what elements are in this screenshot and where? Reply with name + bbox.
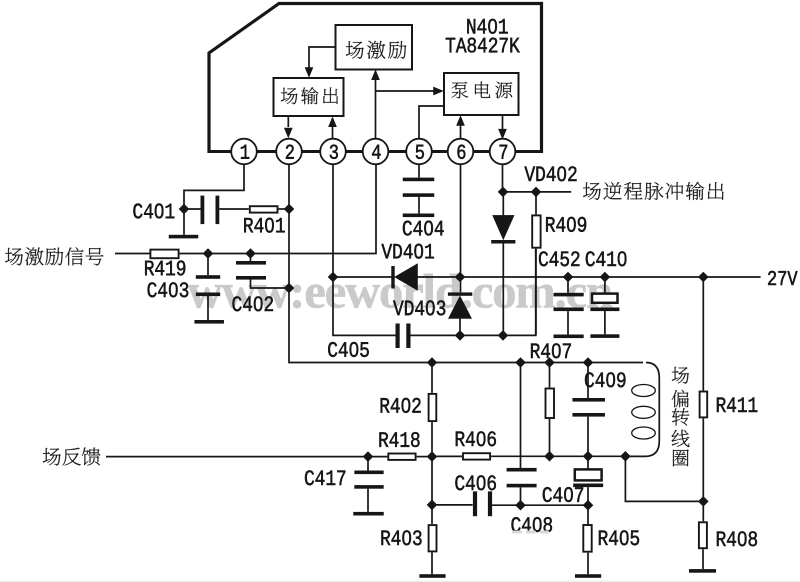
ground R408 bbox=[689, 569, 716, 573]
capacitor C405 bbox=[396, 324, 400, 349]
capacitor C408 bbox=[432, 504, 473, 506]
label C452 bbox=[539, 251, 548, 266]
label C410 bbox=[586, 251, 595, 266]
resistor R402 bbox=[431, 363, 433, 393]
wire pin4 to 场激励 arrow up bbox=[375, 80, 377, 139]
wire retrace output bbox=[503, 191, 571, 193]
node C402 junction bbox=[245, 248, 256, 259]
watermark www.eeworld.com.cn bbox=[188, 285, 223, 308]
resistor R407 bbox=[549, 363, 551, 388]
diode VD401 bbox=[391, 266, 394, 289]
ground C410 bbox=[590, 334, 619, 338]
diode VD402 bbox=[502, 192, 504, 216]
label 场逆程脉冲输出 bbox=[583, 182, 601, 199]
capacitor C410 (electrolytic) bbox=[604, 277, 606, 293]
capacitor C402 bbox=[250, 254, 252, 262]
wire pin1 to C401 bbox=[184, 164, 244, 209]
wire C405 to R409 riser bbox=[411, 249, 536, 336]
ground C403 bbox=[194, 320, 224, 324]
wire pin2 down to bottom rail bbox=[289, 164, 643, 362]
resistor R405 bbox=[587, 505, 589, 524]
bottom faint border bbox=[0, 581, 800, 582]
wire pin6 down bbox=[460, 164, 462, 292]
IC label N401 bbox=[467, 19, 475, 33]
node coil bottom bbox=[620, 451, 631, 462]
node C406 bottom bbox=[515, 500, 526, 511]
input label 场反馈 bbox=[43, 448, 61, 465]
node C407 bottom bbox=[583, 500, 594, 511]
resistor R401 bbox=[250, 206, 278, 212]
wire pin5 down bbox=[418, 164, 420, 177]
wire 场输出 to pin2 arrow bbox=[287, 116, 289, 127]
ground C417 bbox=[353, 512, 384, 516]
node VD402 bottom bbox=[498, 330, 509, 341]
node R407 bottom bbox=[544, 451, 555, 462]
capacitor C452 bbox=[567, 277, 569, 293]
node C406 top bbox=[515, 357, 526, 368]
capacitor C409 bbox=[587, 363, 589, 399]
block 场激励 (field drive) bbox=[336, 25, 413, 70]
node R411 top bbox=[698, 272, 709, 283]
node C452 top bbox=[563, 272, 574, 283]
wire pin3 to 场输出 arrow up bbox=[332, 127, 334, 139]
diode VD403 bbox=[448, 292, 472, 295]
deflection coil L 场偏转线圈 bbox=[625, 363, 659, 457]
wire pin5 to 泵电源 left bbox=[419, 106, 444, 139]
resistor R418 bbox=[388, 454, 415, 460]
ground C401 bbox=[183, 209, 185, 235]
resistor R419 bbox=[150, 250, 178, 259]
node R411-R408 bbox=[698, 496, 709, 507]
capacitor C403 bbox=[207, 254, 209, 276]
node C403 junction bbox=[203, 248, 214, 259]
block 泵电源 (pump supply) bbox=[444, 73, 519, 115]
ground R405 bbox=[575, 574, 601, 578]
node R407 top bbox=[544, 357, 555, 368]
node C402-pin2 bbox=[284, 283, 295, 294]
node R401-pin2 bbox=[284, 204, 295, 215]
capacitor C406 bbox=[507, 468, 537, 472]
ground C404 bbox=[403, 214, 435, 218]
resistor R403 bbox=[429, 525, 437, 551]
resistor R408 bbox=[699, 522, 707, 548]
node pin6-rail bbox=[455, 272, 466, 283]
wire R402-R403 vertical bbox=[431, 457, 433, 524]
IC label TA8427K bbox=[446, 38, 455, 52]
pin 3 bbox=[320, 139, 346, 165]
wire 泵电源 to pin7 arrow down bbox=[502, 115, 504, 129]
wire pin6 to 泵电源 arrow up bbox=[460, 126, 462, 139]
wire pin7 down bbox=[502, 164, 504, 192]
node R402 top bbox=[427, 357, 438, 368]
node VD403 bottom bbox=[455, 330, 466, 341]
pin 2 bbox=[276, 139, 302, 165]
capacitor C401 bbox=[184, 208, 201, 210]
wire feedback line bbox=[106, 456, 368, 458]
label 27V bbox=[768, 271, 776, 285]
resistor R411 bbox=[702, 277, 704, 391]
block 场输出 (field output) bbox=[274, 78, 344, 116]
node R409 top bbox=[531, 187, 542, 198]
pin 1 bbox=[231, 139, 257, 165]
capacitor C404 bbox=[403, 178, 435, 182]
wire drive-to-output + arrow into 场输出 top bbox=[309, 47, 336, 68]
capacitor C407 (electrolytic) bbox=[587, 456, 589, 469]
wire 27V rail bbox=[333, 276, 392, 278]
capacitor C417 bbox=[367, 457, 369, 471]
ground R403 bbox=[419, 574, 445, 578]
wire R419 to pin4 riser bbox=[180, 164, 376, 253]
node C409 top bbox=[583, 357, 594, 368]
ground C452 bbox=[554, 335, 584, 339]
node C407 top bbox=[583, 451, 594, 462]
node VD401 anode bbox=[328, 272, 339, 283]
wire R406 to coil bbox=[491, 455, 625, 457]
wire signal line to R419 bbox=[115, 253, 150, 255]
wire C406 riser bbox=[520, 363, 522, 468]
resistor R406 bbox=[463, 453, 490, 459]
node R402-R418 bbox=[427, 451, 438, 462]
label VD402 bbox=[524, 167, 535, 181]
wire R409 down to C405 line bbox=[535, 249, 537, 336]
wire pin3 down bbox=[333, 164, 396, 335]
node pin7-VD402 bbox=[498, 187, 509, 198]
pin 4 bbox=[363, 139, 389, 165]
resistor R409 bbox=[535, 192, 537, 215]
pin 5 bbox=[406, 139, 432, 165]
wire coil bottom to R408 node bbox=[625, 456, 703, 501]
node C410 top bbox=[600, 272, 611, 283]
pin 6 bbox=[448, 139, 474, 165]
input label 场激励信号 bbox=[5, 248, 23, 265]
faint watermark remnant bbox=[512, 531, 522, 534]
label 场偏转线圈 vertical bbox=[672, 367, 689, 384]
IC U-N401 TA8427K outline bbox=[209, 4, 542, 154]
wire pin4-branch to 泵电源 arrow right bbox=[376, 90, 434, 92]
pin 7 bbox=[490, 139, 516, 165]
node C401 junction bbox=[179, 204, 190, 215]
node C408 left bbox=[427, 500, 438, 511]
node C417 junction bbox=[363, 451, 374, 462]
